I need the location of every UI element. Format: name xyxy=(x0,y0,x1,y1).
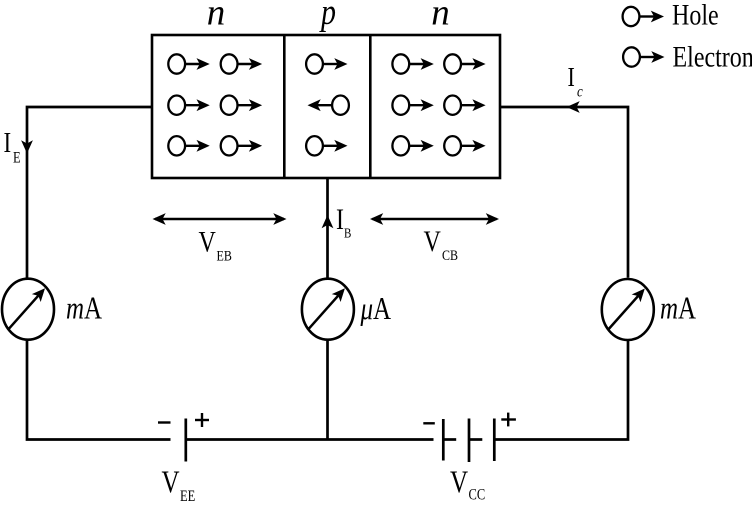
svg-text:EB: EB xyxy=(217,247,232,264)
svg-text:n: n xyxy=(207,0,226,33)
svg-text:I: I xyxy=(4,127,12,159)
svg-text:CC: CC xyxy=(469,486,486,504)
svg-text:mA: mA xyxy=(66,292,103,326)
svg-text:B: B xyxy=(344,225,351,240)
svg-text:EE: EE xyxy=(180,488,195,506)
svg-text:p: p xyxy=(319,0,336,33)
svg-text:Electron: Electron xyxy=(673,40,752,73)
svg-text:E: E xyxy=(13,149,21,167)
svg-text:μA: μA xyxy=(360,292,392,326)
svg-text:c: c xyxy=(577,83,583,101)
svg-text:V: V xyxy=(199,225,217,258)
svg-text:I: I xyxy=(336,202,344,235)
svg-text:V: V xyxy=(424,224,442,257)
svg-text:I: I xyxy=(568,63,575,93)
svg-text:V: V xyxy=(450,466,469,500)
svg-text:V: V xyxy=(162,466,181,500)
svg-text:Hole: Hole xyxy=(672,0,719,31)
svg-text:mA: mA xyxy=(660,292,697,326)
svg-text:CB: CB xyxy=(442,247,458,264)
svg-text:n: n xyxy=(431,0,450,33)
